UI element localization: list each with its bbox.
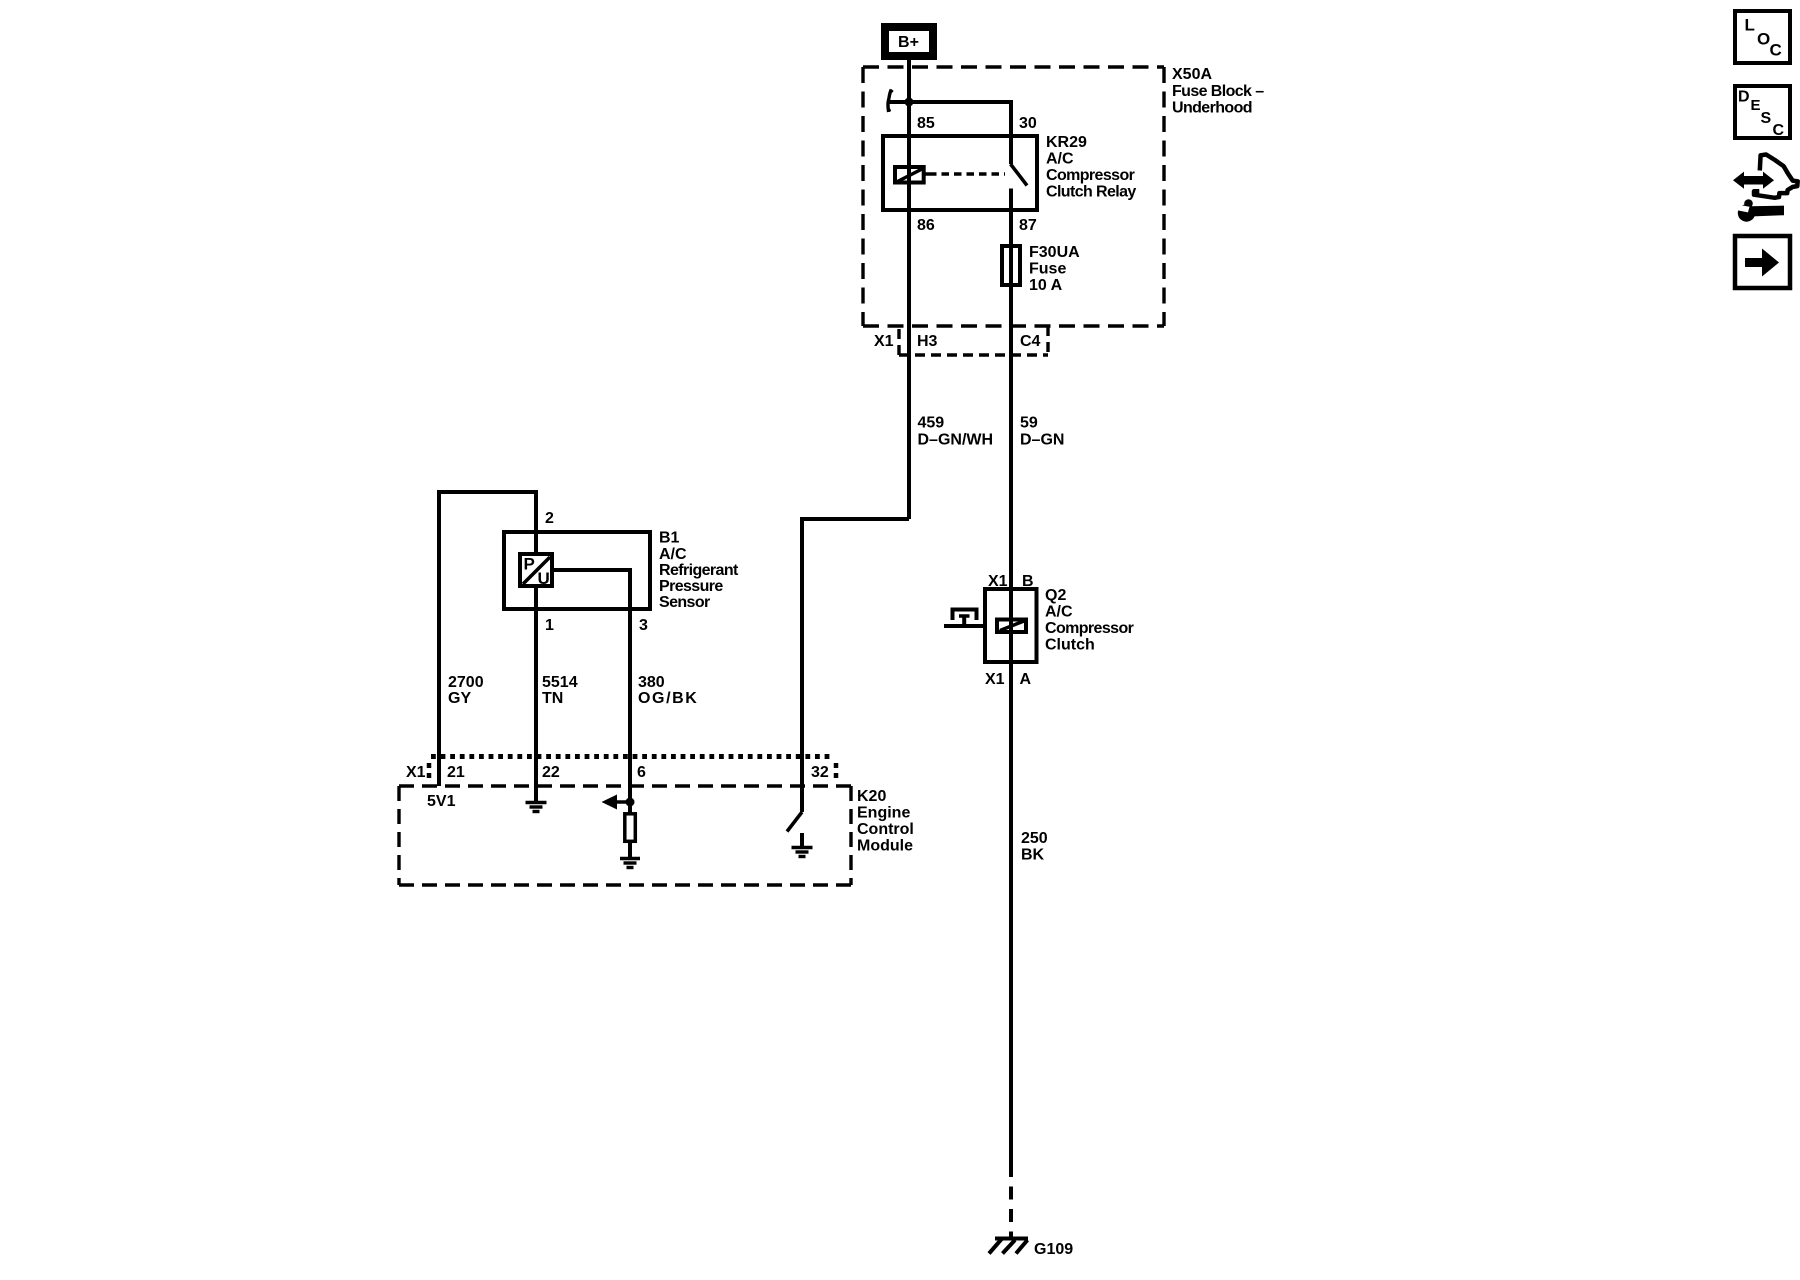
svg-text:86: 86 (917, 217, 935, 234)
svg-text:Pressure: Pressure (659, 578, 723, 595)
svg-text:Compressor: Compressor (1046, 167, 1135, 184)
svg-text:10 A: 10 A (1029, 277, 1063, 294)
svg-text:Clutch: Clutch (1045, 637, 1095, 654)
svg-text:C4: C4 (1020, 333, 1041, 350)
svg-text:H3: H3 (917, 333, 938, 350)
svg-text:87: 87 (1019, 217, 1037, 234)
svg-text:KR29: KR29 (1046, 134, 1087, 151)
svg-text:32: 32 (811, 764, 829, 781)
svg-text:Fuse Block –: Fuse Block – (1172, 83, 1264, 100)
svg-text:L: L (1745, 16, 1755, 35)
svg-text:F30UA: F30UA (1029, 244, 1080, 261)
svg-text:B: B (1022, 573, 1034, 590)
svg-text:A/C: A/C (1046, 151, 1074, 168)
svg-text:X1: X1 (874, 333, 894, 350)
svg-text:Q2: Q2 (1045, 587, 1066, 604)
svg-text:B+: B+ (898, 34, 919, 51)
svg-text:21: 21 (447, 764, 465, 781)
svg-text:X50A: X50A (1172, 66, 1212, 83)
svg-text:380: 380 (638, 674, 665, 691)
svg-text:459: 459 (918, 415, 945, 432)
svg-text:TN: TN (542, 690, 563, 707)
svg-text:X1: X1 (406, 764, 426, 781)
svg-text:O: O (1757, 30, 1770, 49)
svg-text:250: 250 (1021, 830, 1048, 847)
svg-text:30: 30 (1019, 115, 1037, 132)
svg-text:5514: 5514 (542, 674, 578, 691)
svg-text:Underhood: Underhood (1172, 100, 1252, 117)
svg-text:BK: BK (1021, 847, 1045, 864)
svg-text:2700: 2700 (448, 674, 484, 691)
svg-text:D–GN/WH: D–GN/WH (918, 432, 994, 449)
svg-text:Clutch Relay: Clutch Relay (1046, 184, 1136, 201)
svg-text:A: A (1020, 671, 1032, 688)
svg-text:E: E (1751, 97, 1761, 114)
svg-text:A/C: A/C (1045, 604, 1073, 621)
svg-text:X1: X1 (988, 573, 1008, 590)
svg-text:B1: B1 (659, 530, 680, 547)
svg-text:OG/BK: OG/BK (638, 690, 698, 707)
svg-text:59: 59 (1020, 415, 1038, 432)
svg-text:Module: Module (857, 838, 913, 855)
svg-text:22: 22 (542, 764, 560, 781)
svg-text:5V1: 5V1 (427, 793, 456, 810)
svg-text:S: S (1761, 110, 1772, 127)
svg-text:K20: K20 (857, 788, 886, 805)
svg-text:P: P (524, 555, 535, 574)
svg-text:2: 2 (545, 510, 554, 527)
svg-text:D–GN: D–GN (1020, 432, 1064, 449)
svg-text:U: U (538, 569, 550, 588)
svg-text:85: 85 (917, 115, 935, 132)
svg-text:C: C (1773, 122, 1785, 139)
svg-text:Refrigerant: Refrigerant (659, 562, 739, 579)
svg-text:Compressor: Compressor (1045, 620, 1134, 637)
svg-text:X1: X1 (985, 671, 1005, 688)
svg-text:Engine: Engine (857, 805, 910, 822)
svg-text:1: 1 (545, 617, 554, 634)
svg-text:Control: Control (857, 821, 914, 838)
svg-text:D: D (1738, 89, 1750, 106)
svg-text:6: 6 (637, 764, 646, 781)
svg-text:A/C: A/C (659, 546, 687, 563)
svg-text:Fuse: Fuse (1029, 261, 1066, 278)
svg-text:GY: GY (448, 690, 471, 707)
svg-text:C: C (1770, 41, 1782, 60)
svg-text:Sensor: Sensor (659, 594, 710, 611)
svg-text:3: 3 (639, 617, 648, 634)
svg-text:G109: G109 (1034, 1241, 1073, 1258)
